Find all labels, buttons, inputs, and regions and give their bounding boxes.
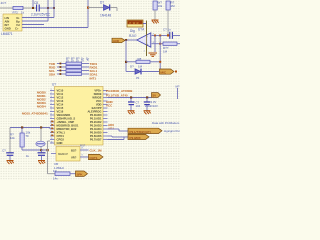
ground below C6 bbox=[144, 111, 151, 115]
wire olive x=146.5 down bbox=[146, 21, 148, 57]
svg-text:XTAL1: XTAL1 bbox=[57, 131, 66, 135]
IC U3 small body bbox=[56, 147, 80, 162]
U2 left pin 1 bbox=[50, 90, 55, 92]
opamp input stubs bbox=[152, 35, 155, 37]
svg-text:P0.7/AD7: P0.7/AD7 bbox=[90, 138, 102, 142]
U2 right pin 26 bbox=[103, 121, 108, 123]
svg-text:LM4871: LM4871 bbox=[1, 32, 13, 36]
svg-text:1M: 1M bbox=[163, 49, 168, 53]
junction at (47.5,150) bbox=[47, 149, 49, 151]
U2 left pin 7 bbox=[50, 111, 55, 113]
wire x=155 down to gnd bbox=[154, 36, 156, 53]
wire C7 to ground bbox=[9, 156, 11, 161]
wires left of resistor pack bbox=[57, 63, 66, 65]
U3 right pin wire top bbox=[80, 149, 89, 151]
U3 right pin wire bottom bbox=[80, 156, 89, 158]
resistor R5 on y=43.7 bbox=[163, 42, 177, 45]
svg-text:VC12: VC12 bbox=[57, 96, 64, 100]
wire x=126 vertical 40-71 bbox=[125, 40, 127, 72]
svg-text:AUD: AUD bbox=[113, 39, 119, 43]
port OUT arrow right mid bbox=[160, 69, 175, 74]
wire x=10 down to C7 bbox=[9, 128, 11, 153]
wire R7 bottom corner bbox=[21, 147, 23, 150]
port1 wide arrow right bbox=[128, 128, 162, 133]
port IN arrow right feeding opamp bbox=[112, 38, 125, 43]
wire cap to corner x54 bbox=[39, 7, 54, 9]
junction at (33,8) bbox=[32, 7, 34, 9]
capacitor C1 plates bbox=[36, 5, 38, 12]
svg-text:10k: 10k bbox=[10, 136, 15, 140]
svg-text:6: 6 bbox=[51, 106, 52, 108]
svg-text:VBG/GND1: VBG/GND1 bbox=[57, 113, 72, 117]
svg-text:16: 16 bbox=[51, 141, 53, 143]
svg-text:P3.0/RX: P3.0/RX bbox=[130, 136, 141, 140]
crystal Y1 wire bottom bbox=[40, 147, 42, 150]
U2 right pin 30 bbox=[103, 135, 108, 137]
U2 right pin 25 bbox=[103, 118, 108, 120]
wire diode cathode bbox=[110, 7, 117, 9]
svg-text:VC13: VC13 bbox=[57, 99, 64, 103]
junction at (88,7.5) bbox=[87, 7, 89, 9]
capacitor C5 stub bbox=[130, 98, 132, 102]
svg-text:AD1: AD1 bbox=[108, 127, 114, 131]
svg-text:MEMCP: MEMCP bbox=[58, 152, 68, 156]
resistor R7 body vertical bbox=[20, 133, 24, 147]
resistor pack bodies bbox=[66, 62, 82, 65]
wire pin2 y=21 bbox=[22, 20, 48, 22]
svg-text:P0.4/AD4: P0.4/AD4 bbox=[90, 127, 102, 131]
junction at (22,127.5) bbox=[21, 126, 23, 128]
junctions on y=35.5 bbox=[154, 35, 156, 37]
svg-text:7: 7 bbox=[51, 110, 52, 112]
svg-text:CPO2: CPO2 bbox=[57, 138, 65, 142]
resistor R7 wire top bbox=[21, 128, 23, 134]
U2 left pin 14 bbox=[50, 135, 55, 137]
svg-text:3: 3 bbox=[51, 96, 52, 98]
wire x=160 vertical 35-71 bbox=[159, 36, 161, 72]
resistor R1 body bbox=[13, 6, 23, 9]
svg-text:2: 2 bbox=[51, 92, 52, 94]
wire diode anode bbox=[88, 7, 103, 9]
junction at (126,40) bbox=[125, 39, 127, 41]
wire C5 to ground bbox=[130, 105, 132, 111]
wire right edge vertical bbox=[177, 88, 179, 99]
svg-text:U?: U? bbox=[52, 82, 56, 86]
svg-text:15: 15 bbox=[51, 138, 53, 140]
svg-text:C? 1n: C? 1n bbox=[163, 28, 171, 32]
U2 left pin 5 bbox=[50, 104, 55, 106]
junction at (54,8) bbox=[53, 7, 55, 9]
U2 right pin 29 bbox=[103, 132, 108, 134]
wire pin1 y=17.5 bbox=[22, 17, 54, 19]
wire x=47.5 vertical long bbox=[47, 141, 49, 174]
U2 left pin 9 bbox=[50, 118, 55, 120]
svg-text:SPK: SPK bbox=[77, 173, 83, 177]
wire R6 to x=160 bbox=[150, 61, 160, 63]
svg-text:C8: C8 bbox=[34, 1, 38, 5]
svg-text:GND: GND bbox=[57, 141, 63, 145]
svg-text:EA/VPP: EA/VPP bbox=[92, 106, 102, 110]
svg-text:1N4148: 1N4148 bbox=[100, 14, 111, 18]
capacitor C8 plates bbox=[38, 152, 46, 154]
junction at (48,8) bbox=[47, 7, 49, 9]
U2 right pin 27 bbox=[103, 125, 108, 127]
wire inverting input rail y=35.5 bbox=[155, 35, 170, 37]
ground below C5 bbox=[128, 111, 135, 115]
U2 right pin 28 bbox=[103, 128, 108, 130]
junction at (131,97.5) bbox=[130, 96, 132, 98]
svg-text:ALE/PROG: ALE/PROG bbox=[87, 110, 101, 114]
U2 right pin 21 bbox=[103, 104, 108, 106]
op-amp U1 LM4871 body bbox=[3, 14, 22, 31]
svg-text:VCC: VCC bbox=[106, 103, 113, 107]
svg-text:-: - bbox=[147, 35, 148, 39]
U2 left pin 6 bbox=[50, 107, 55, 109]
capacitor C6 stub bbox=[146, 98, 148, 102]
svg-text:PWR: PWR bbox=[130, 21, 141, 25]
op-amp U2A triangle pointing left bbox=[137, 33, 151, 47]
U2 left pin 2 bbox=[50, 93, 55, 95]
svg-text:8: 8 bbox=[51, 113, 52, 115]
wire y=127.5 horizontal bbox=[10, 127, 50, 129]
svg-text:9: 9 bbox=[51, 117, 52, 119]
port small 5V right bbox=[152, 93, 161, 98]
svg-text:VC11: VC11 bbox=[57, 92, 64, 96]
U2 right pin 17 bbox=[103, 90, 108, 92]
wire olive over opamp bbox=[146, 32, 148, 56]
U2 right pin 19 bbox=[103, 97, 108, 99]
capacitor C6 plates bbox=[144, 101, 151, 103]
svg-text:GEN4PL/AD_S: GEN4PL/AD_S bbox=[57, 117, 76, 121]
wire to port1 bbox=[108, 128, 120, 130]
svg-text:MOD4: MOD4 bbox=[37, 105, 46, 109]
wire noninverting rail y=43.7 bbox=[155, 43, 163, 45]
U2 left pin 8 bbox=[50, 114, 55, 116]
wire stub up x=33 bbox=[32, 0, 34, 8]
U2 right pin 20 bbox=[103, 100, 108, 102]
svg-text:P3.0/RXD_AT45DB: P3.0/RXD_AT45DB bbox=[106, 89, 133, 93]
svg-text:14s: 14s bbox=[53, 176, 58, 180]
diode D1 bbox=[104, 5, 110, 11]
svg-text:+IN/SEL_CMP: +IN/SEL_CMP bbox=[57, 120, 75, 124]
svg-text:P0.5/AD5: P0.5/AD5 bbox=[90, 131, 102, 135]
svg-text:Data with PC/Modem: Data with PC/Modem bbox=[152, 121, 180, 125]
svg-text:C?: C? bbox=[2, 148, 6, 152]
svg-text:M?: M? bbox=[176, 84, 180, 88]
junction right of port bbox=[175, 71, 177, 73]
svg-text:P0.2/AD2: P0.2/AD2 bbox=[90, 120, 102, 124]
junction at (160,43.7) bbox=[159, 43, 161, 45]
svg-text:VPD+: VPD+ bbox=[94, 89, 102, 93]
svg-text:VCC: VCC bbox=[96, 99, 102, 103]
U2 right pin 18 bbox=[103, 93, 108, 95]
svg-text:P3.1/TXD(OUT): P3.1/TXD(OUT) bbox=[130, 130, 151, 134]
U2 left pin 13 bbox=[50, 132, 55, 134]
svg-text:4: 4 bbox=[51, 99, 52, 101]
port bottom arrow right bbox=[76, 171, 88, 176]
U2 left pin 12 bbox=[50, 128, 55, 130]
wire to port2 bbox=[108, 135, 113, 137]
svg-text:VC14: VC14 bbox=[57, 103, 64, 107]
svg-text:MOSI_AT45DB041: MOSI_AT45DB041 bbox=[22, 112, 48, 116]
svg-text:10k: 10k bbox=[158, 4, 163, 8]
svg-text:CB: CB bbox=[54, 162, 58, 166]
svg-text:?F: ?F bbox=[26, 134, 30, 138]
junction at (160,61.8) bbox=[159, 61, 161, 63]
K1 pin stub bbox=[143, 23, 147, 25]
wire main top rail y=8 bbox=[0, 7, 13, 9]
svg-text:VC16: VC16 bbox=[57, 110, 64, 114]
svg-text:SMOE: SMOE bbox=[94, 92, 102, 96]
capacitor C8 stub bbox=[41, 150, 43, 152]
resistor R4 vertical top-right bbox=[166, 1, 170, 10]
U2 left pin 10 bbox=[50, 121, 55, 123]
ground below C8 bbox=[38, 161, 45, 165]
svg-text:VC10: VC10 bbox=[57, 89, 64, 93]
U2 left pin 4 bbox=[50, 100, 55, 102]
diode D2 bbox=[135, 69, 141, 74]
svg-text:MOSI/RXD_BUS1: MOSI/RXD_BUS1 bbox=[57, 124, 79, 128]
wire x=88 up bbox=[87, 0, 89, 28]
U2 right pin 31 bbox=[103, 139, 108, 141]
svg-text:Hgs/grm/Yor?: Hgs/grm/Yor? bbox=[164, 129, 180, 133]
svg-text:INT1: INT1 bbox=[90, 77, 97, 81]
ground below R3 bbox=[152, 20, 159, 23]
wire x=48 down to pin2 bbox=[47, 0, 49, 21]
svg-text:P0.1/AD1: P0.1/AD1 bbox=[90, 117, 102, 121]
svg-text:OUT1: OUT1 bbox=[90, 156, 98, 160]
svg-text:C+: C+ bbox=[15, 26, 19, 30]
pin number flecks left edge bbox=[51, 121, 53, 137]
wire C6 to ground bbox=[146, 105, 148, 111]
port right of U3 bbox=[89, 154, 104, 159]
wire R3 to ground bbox=[154, 10, 156, 20]
svg-text:pq: pq bbox=[136, 75, 140, 79]
resistor R8 body bottom bbox=[55, 172, 70, 176]
svg-text:GND: GND bbox=[5, 26, 11, 30]
svg-text:WR/OE: WR/OE bbox=[92, 96, 101, 100]
svg-text:MIC: MIC bbox=[161, 70, 167, 74]
svg-text:VC15: VC15 bbox=[57, 106, 64, 110]
wire pin3 y=24.5 stub bbox=[22, 24, 44, 26]
wire cap to edge bbox=[173, 35, 180, 37]
wire port to opamp bbox=[125, 39, 137, 41]
junction at (41,150) bbox=[40, 149, 42, 151]
capacitor C7 plates bbox=[6, 152, 14, 154]
wire R4 down to y=35 bbox=[167, 10, 169, 35]
component K1 small box with dark header bbox=[127, 20, 143, 27]
U3 left pin stub bbox=[51, 153, 56, 155]
U2 left pin 3 bbox=[50, 97, 55, 99]
crystal Y1 body bbox=[36, 141, 45, 146]
junction at (126,61.8) bbox=[125, 61, 127, 63]
resistor R6 body bbox=[136, 60, 150, 63]
wires right of resistor pack bbox=[82, 63, 90, 65]
svg-text:4C?: 4C? bbox=[1, 1, 7, 5]
junction at (41,127.5) bbox=[40, 126, 42, 128]
wire C8 to ground bbox=[41, 156, 43, 161]
junction dots left bbox=[60, 63, 62, 65]
svg-text:VDD: VDD bbox=[96, 103, 102, 107]
svg-text:Dig: Dig bbox=[130, 29, 135, 33]
svg-text:5V: 5V bbox=[153, 93, 157, 97]
U2 left pin 11 bbox=[50, 125, 55, 127]
U2 right pin 23 bbox=[103, 111, 108, 113]
wire y=141 stub to U2 bbox=[48, 140, 51, 142]
svg-text:CLK_1M: CLK_1M bbox=[90, 148, 103, 152]
svg-text:BS?: BS? bbox=[71, 149, 77, 153]
svg-text:P3.1/TXD_AT45: P3.1/TXD_AT45 bbox=[106, 94, 128, 98]
svg-text:MISO/TXD_BU2: MISO/TXD_BU2 bbox=[57, 127, 77, 131]
wire between R and cap bbox=[23, 7, 37, 9]
wire x=54 down to pin1 bbox=[53, 0, 55, 18]
svg-text:1M: 1M bbox=[171, 4, 176, 8]
U2 right pin 22 bbox=[103, 107, 108, 109]
svg-text:P0.0/AD0: P0.0/AD0 bbox=[90, 113, 102, 117]
wire diode to port bbox=[141, 71, 159, 73]
svg-text:D?: D? bbox=[100, 0, 104, 4]
wire pin4 y=27.5 long bbox=[22, 27, 88, 29]
svg-text:SDA: SDA bbox=[49, 73, 56, 77]
U2 left pin 15 bbox=[50, 139, 55, 141]
wire VCC rail y=97.5 bbox=[108, 97, 152, 99]
wire y=61.8 to R6 bbox=[126, 61, 136, 63]
wire stub down x=117 bbox=[116, 8, 118, 12]
svg-text:1M: 1M bbox=[138, 65, 143, 69]
power GND arrow near opamp bbox=[149, 53, 158, 56]
ground below C7 bbox=[7, 161, 14, 165]
crystal Y1 wire top bbox=[40, 128, 42, 142]
wire R8 to port bbox=[70, 173, 76, 175]
svg-text:1: 1 bbox=[51, 89, 52, 91]
U2 right pin 24 bbox=[103, 114, 108, 116]
svg-text:P0.6/AD6: P0.6/AD6 bbox=[90, 134, 102, 138]
wire corner to R8 bbox=[48, 173, 56, 175]
svg-text:P0.3/AD3: P0.3/AD3 bbox=[90, 124, 102, 128]
svg-text:U?A: U?A bbox=[138, 28, 145, 32]
wire y=71.5 to diode bbox=[126, 71, 135, 73]
capacitor C5 plates bbox=[128, 101, 135, 103]
svg-text:RS?: RS? bbox=[80, 143, 86, 147]
capacitor C2 plates on y=35.5 bbox=[169, 32, 171, 39]
svg-text:5: 5 bbox=[51, 103, 52, 105]
junction at (147,97.5) bbox=[146, 96, 148, 98]
svg-text:D?: D? bbox=[130, 64, 134, 68]
svg-text:CPO1: CPO1 bbox=[57, 134, 65, 138]
resistor R3 vertical top-right bbox=[153, 1, 157, 10]
svg-text:RJ4?: RJ4? bbox=[129, 34, 137, 38]
port2 arrow right bbox=[128, 134, 149, 139]
U2 left pin 16 bbox=[50, 142, 55, 144]
svg-text:VR?: VR? bbox=[71, 156, 77, 160]
IC U2 main body bbox=[55, 87, 104, 146]
svg-text:104: 104 bbox=[136, 104, 141, 108]
wire pin row y=139.5 long bbox=[108, 139, 125, 141]
